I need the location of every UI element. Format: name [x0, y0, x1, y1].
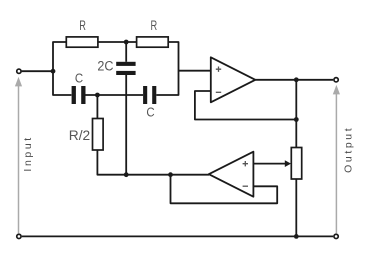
op-amp U2 minus mark	[243, 185, 248, 187]
svg-text:Output: Output	[343, 126, 355, 173]
wire ground rail	[22, 235, 333, 237]
wire op-amp U1 noninverting input	[179, 70, 211, 72]
terminal output (bottom)	[334, 234, 338, 238]
wire R/2 top lead	[96, 95, 98, 119]
wire U2 feedback loop (inverting input to output)	[171, 175, 278, 204]
wire C1 to C2 (bottom-T midpoint)	[86, 94, 144, 96]
resistor R/2	[93, 119, 104, 151]
op-amp U1 plus mark	[216, 67, 221, 72]
resistor R2	[137, 37, 169, 47]
wire U1 feedback loop (inverting input to output)	[195, 91, 296, 120]
input direction arrowhead	[15, 77, 22, 87]
svg-text:Input: Input	[22, 135, 34, 171]
wire R/2 bottom lead to bootstrap rail	[97, 150, 126, 175]
op-amp U2 (buffer, points left)	[209, 152, 254, 197]
node input junction	[51, 69, 56, 74]
capacitor C2	[143, 86, 156, 104]
svg-text:2C: 2C	[97, 58, 113, 74]
wire top-left branch (input node to R1 and C1)	[53, 42, 71, 95]
wire bootstrap rail (to U2 output)	[126, 174, 209, 176]
terminal input (bottom)	[17, 234, 21, 238]
svg-text:R/2: R/2	[69, 128, 90, 143]
node ground rail junction	[294, 234, 299, 239]
output direction indicator line	[335, 94, 337, 233]
node U1 feedback junction	[294, 117, 299, 122]
svg-text:R: R	[150, 17, 157, 34]
wire U1 output to output terminal	[255, 79, 333, 81]
svg-text:C: C	[146, 105, 154, 120]
wire top-right branch (R2 to C2 right plate)	[156, 42, 178, 95]
svg-text:R: R	[79, 17, 86, 34]
op-amp U1 minus mark	[216, 91, 221, 93]
wire potentiometer bottom to ground rail	[295, 179, 297, 236]
op-amp U1 (buffer, points right)	[211, 57, 256, 102]
node bootstrap junction (2C)	[124, 172, 129, 177]
op-amp U2 plus mark	[243, 161, 248, 166]
wire input stub	[22, 70, 53, 72]
terminal output (top)	[334, 78, 338, 82]
resistor R1	[66, 37, 98, 47]
node bootstrap junction (feedback)	[168, 172, 173, 177]
wire U2 noninverting input to potentiometer wiper	[253, 163, 285, 165]
node output junction	[294, 77, 299, 82]
input direction indicator line	[18, 86, 20, 233]
wiper arrowhead	[285, 160, 291, 167]
wire 2C top lead	[125, 42, 127, 62]
output direction arrowhead	[333, 85, 340, 95]
wire between R1 and R2	[98, 41, 137, 43]
node bottom-T midpoint	[95, 93, 100, 98]
node top-T midpoint	[124, 40, 129, 45]
svg-text:C: C	[75, 71, 83, 86]
capacitor 2C	[116, 62, 135, 75]
wire output node down to potentiometer top	[295, 80, 297, 148]
wire 2C bottom lead (crosses C row, down to bootstrap node)	[125, 75, 127, 175]
capacitor C1	[72, 86, 86, 104]
potentiometer body	[291, 148, 301, 180]
terminal input (top)	[17, 69, 21, 73]
